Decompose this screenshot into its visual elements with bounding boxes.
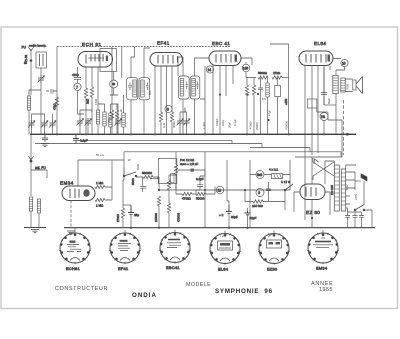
- screen box around ECH81 heptode: [100, 49, 117, 72]
- switch S1 tone: [123, 168, 137, 177]
- wire output transformer frame: [336, 79, 353, 134]
- capacitor C3 padder trimmer: [28, 120, 35, 128]
- wire R6: [116, 104, 118, 134]
- resistor R16: [167, 180, 170, 190]
- speaker LS1: [353, 77, 363, 94]
- wire C8: [87, 126, 89, 134]
- wire c17: [268, 182, 270, 201]
- resistor R1 oscillator grid: [84, 88, 87, 98]
- caption CONSTRUCTEUR: [55, 286, 108, 292]
- socket rim ticks ECH81: [59, 233, 91, 264]
- wire pin16: [110, 72, 118, 96]
- wire R2: [91, 67, 93, 134]
- coil L5 oscillator: [96, 110, 99, 124]
- capacitor C17: [266, 186, 271, 194]
- wire pot input: [150, 177, 159, 179]
- resistor R23 on AVC line: [55, 97, 58, 107]
- wire R8 to x288: [282, 77, 289, 79]
- coil L1 frame antenna box: [36, 52, 47, 68]
- node phono input terminal: [29, 134, 34, 162]
- resistor R17: [157, 196, 160, 206]
- coil L7 padding: [109, 113, 112, 127]
- wire R20: [176, 184, 215, 195]
- resistor R10 vertical: [252, 85, 255, 95]
- pin circle EF41: [165, 105, 172, 112]
- capacitor C18 electrolytic 32uF b: [245, 208, 251, 228]
- wire EL84 drops: [305, 66, 330, 221]
- wire coil to bus: [29, 90, 41, 134]
- socket rim ticks EM34: [307, 233, 339, 264]
- pin 17 circle: [74, 83, 81, 90]
- tube U3 EBC41 envelope: [209, 51, 241, 66]
- coil L3: [29, 197, 32, 211]
- socket EF41 outline: [110, 233, 140, 263]
- node junction dots bus: [56, 93, 325, 229]
- tube U1 ECH81 envelope: [78, 52, 113, 68]
- socket EZ80 outline: [259, 234, 289, 264]
- plug P1 mains: [355, 174, 367, 205]
- transformer T2 IF2 can B: [190, 76, 200, 99]
- wire EBC41 drops: [210, 66, 233, 135]
- socket rim ticks EBC41: [159, 232, 191, 263]
- capacitor C19: [345, 212, 350, 228]
- capacitor C11 tone: [321, 67, 336, 105]
- coil L8: [122, 113, 125, 127]
- ground bar left pair: [24, 227, 46, 229]
- coil L6 oscillator: [103, 112, 106, 126]
- wire x288 down: [288, 51, 290, 134]
- wire vertical from AVC rail: [56, 47, 58, 135]
- ground symbol EM34: [67, 231, 75, 234]
- resistor R11 box: [275, 78, 281, 135]
- capacitor C1 trimmer: [38, 75, 45, 83]
- pin circle rect1: [256, 171, 264, 179]
- transformer T1 IF1 can A: [127, 78, 138, 100]
- wire R18: [168, 196, 170, 228]
- wire to bus: [40, 83, 42, 134]
- coil L2 antenna: [27, 96, 30, 110]
- coil L4: [37, 199, 40, 213]
- wire EM34 dash down: [70, 201, 72, 228]
- resistor R24: [182, 192, 192, 195]
- pin circle EBC41 left: [206, 66, 213, 73]
- wire audio box top: [124, 152, 341, 168]
- pin circle mid right: [320, 113, 328, 121]
- capacitor C20: [353, 212, 358, 228]
- terminal block rect: [307, 99, 327, 113]
- wire R3 to bus: [160, 122, 162, 134]
- tube U5 EM34 envelope: [62, 186, 95, 201]
- resistor R22 100000: [253, 200, 263, 203]
- resistor R9 vertical: [245, 85, 248, 95]
- resistor R3: [159, 112, 162, 122]
- capacitor C14 electrolytic: [128, 205, 134, 228]
- wire x215: [214, 187, 216, 195]
- caption SYMPHONIE 96: [215, 288, 273, 295]
- wire L7: [110, 104, 112, 134]
- caption 1955: [319, 287, 333, 293]
- resistor R12 EM34 anode: [95, 185, 105, 188]
- wire C22: [179, 112, 181, 134]
- wire x205 down: [204, 152, 206, 228]
- capacitor C7 osc trimmer: [77, 118, 84, 126]
- wire below-bus line 1: [76, 140, 232, 143]
- wire R1: [85, 67, 87, 134]
- wire vertical x122: [121, 47, 123, 78]
- capacitor C6 grid ECH81: [74, 67, 81, 83]
- wire audio mid rail: [159, 189, 290, 191]
- capacitor C15 coupling: [196, 176, 205, 194]
- wire R4 to bus: [171, 122, 173, 134]
- pin circle EL84 anode: [341, 59, 348, 66]
- wire R17 to gnd: [158, 206, 160, 228]
- label misc value texts: [94, 84, 358, 200]
- wire IF1 connections: [131, 47, 150, 135]
- wire HT to EZ80: [325, 161, 356, 184]
- pin circle 165: [242, 64, 250, 72]
- capacitor C4b trimmer: [49, 120, 56, 128]
- capacitor C13: [140, 177, 146, 192]
- capacitor C8 osc gang: [85, 118, 92, 126]
- socket rim ticks EL84: [209, 233, 241, 264]
- antenna terminal: [28, 47, 34, 96]
- wire C10: [260, 78, 262, 135]
- capacitor C5 to ground below bus: [42, 134, 48, 142]
- wire mid verticals between EF41 and EBC41: [200, 66, 205, 134]
- wire EM34 top feed: [78, 160, 124, 186]
- ground below C5: [41, 144, 49, 147]
- transformer T3 output secondary: [341, 78, 345, 92]
- wire S1-R14: [136, 177, 159, 190]
- wire IF2 connections: [178, 57, 209, 134]
- pin 16 circle: [110, 80, 118, 88]
- wire C9: [111, 104, 119, 134]
- capacitor C9 trimmer right: [115, 118, 122, 126]
- wire R10: [253, 78, 255, 135]
- resistor R2: [90, 87, 93, 97]
- capacitor C10: [258, 85, 263, 93]
- resistor R14 500k: [143, 175, 153, 178]
- potentiometer R15 volume box: [158, 152, 177, 190]
- wire top rail EL84: [270, 44, 289, 51]
- tube U6 EZ80 envelope: [300, 184, 325, 200]
- wire EBC41 anode to right: [241, 58, 256, 78]
- coil L9 choke: [266, 83, 269, 97]
- resistor R20 50000: [196, 192, 206, 195]
- transformer T3 output primary: [333, 76, 338, 94]
- wire R5: [111, 47, 113, 135]
- wire R12: [95, 160, 112, 187]
- wire R16: [169, 175, 177, 196]
- wire EZ80 sides: [294, 157, 330, 228]
- capacitor C2 coupling: [46, 89, 57, 94]
- wire lamp row: [250, 160, 290, 228]
- resistor R19 27000: [121, 208, 124, 218]
- resistor R7 5600: [258, 76, 268, 79]
- switch S2 diagonal: [284, 184, 293, 191]
- wire trimmers to bus: [32, 114, 53, 134]
- resistor R8 27k: [272, 76, 282, 79]
- tube U2 EF41 envelope: [150, 53, 183, 67]
- caption ONDIA: [132, 292, 157, 299]
- capacitor C23 trimmer: [183, 118, 190, 126]
- transformer T4 mains selector X: [313, 158, 334, 180]
- pin circle rect2: [256, 189, 264, 197]
- transformer T2 IF2 can A: [179, 76, 190, 99]
- wire bottom taps: [346, 208, 362, 212]
- wire L8: [123, 95, 125, 134]
- main HT bus: [30, 133, 356, 135]
- socket rim ticks EF41: [109, 233, 141, 264]
- capacitor C4 tuning gang: [41, 120, 48, 128]
- wire x285 down: [284, 190, 286, 210]
- resistor R21 field 4x01: [272, 174, 283, 179]
- transformer T4 primary coil: [334, 165, 339, 211]
- resistor R4: [170, 112, 173, 122]
- wire below-bus line 2: [35, 144, 262, 148]
- caption MODELE: [186, 282, 211, 288]
- wire link to audio stage: [123, 204, 131, 206]
- wire grid run: [78, 90, 85, 114]
- wire phono branch: [31, 162, 47, 196]
- wire R13: [105, 187, 112, 200]
- caption ANNEE: [311, 281, 334, 287]
- wire R9: [246, 78, 248, 135]
- wire sockets feed: [75, 228, 323, 234]
- wire frame antenna down: [40, 68, 42, 75]
- wire C7: [80, 110, 92, 134]
- resistor R5 vertical: [110, 110, 113, 120]
- socket rim ticks EZ80: [258, 233, 290, 264]
- wire negative feedback box: [295, 113, 342, 158]
- transformer T1 IF1 can B: [139, 78, 150, 100]
- capacitor C22 trimmer: [177, 118, 184, 126]
- socket ECH81 outline: [60, 233, 90, 263]
- socket EM34 outline: [308, 233, 338, 263]
- wire oscillator coils: [98, 67, 105, 134]
- wire transformer taps: [346, 172, 355, 204]
- tube U4 EL84 envelope: [299, 51, 333, 66]
- resistor R13 EM34 grid: [95, 198, 105, 201]
- chassis ground bus: [64, 227, 375, 229]
- wire x290 vertical: [289, 160, 291, 190]
- wire R19: [123, 176, 124, 228]
- wire EF41 cathode drops: [155, 65, 178, 134]
- wire C23: [180, 112, 187, 134]
- capacitor C16 electrolytic 32uF: [226, 201, 232, 228]
- wire EL84 anode: [333, 59, 345, 76]
- pin circle audio1: [216, 186, 224, 194]
- wire dash link: [343, 100, 345, 155]
- wire L9: [267, 78, 269, 135]
- resistor R6 vertical: [115, 110, 118, 120]
- wire r22: [245, 190, 285, 202]
- wire x227 vertical: [227, 160, 229, 201]
- socket EL84 outline: [210, 233, 240, 264]
- switch S3 mains: [354, 205, 372, 228]
- wire coils to ground: [31, 211, 39, 228]
- capacitor C21: [359, 212, 364, 228]
- ground symbol small: [31, 230, 39, 233]
- capacitor C12 below bus: [73, 134, 79, 143]
- socket EBC41 outline: [160, 233, 190, 263]
- transformer T4 secondary coil: [341, 169, 345, 211]
- resistor R18: [167, 203, 170, 213]
- wire below-bus line 3: [250, 148, 310, 152]
- wire pot wiper: [178, 169, 206, 176]
- wire AVC top rail: [57, 46, 230, 48]
